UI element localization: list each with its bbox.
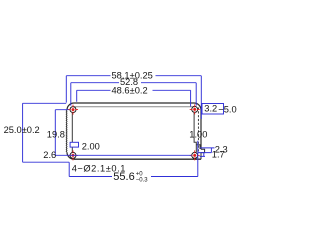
right bottom step [201, 149, 205, 159]
svg-text:55.6: 55.6 [113, 171, 134, 183]
red hole centers [72, 108, 197, 157]
dim 52.8 line [71, 83, 196, 106]
red center cross ticks [68, 104, 200, 160]
hidden dashed line right [197, 108, 199, 152]
enclosure outline: left wall zigzag [65, 110, 68, 152]
left inner wall [71, 113, 73, 152]
hole circle top-right [192, 106, 198, 112]
inner lid seam line top [73, 106, 195, 108]
enclosure outline: top-right corner arc [194, 103, 201, 110]
svg-text:2.6: 2.6 [43, 150, 56, 160]
hole circle bottom-left [70, 152, 76, 158]
enclosure outline: right outer wall [200, 110, 202, 149]
hole circle top-left [70, 107, 76, 113]
dim 1.7 lines [200, 153, 205, 157]
dim 2.3 lines [198, 148, 215, 153]
svg-text:1.00: 1.00 [189, 130, 207, 140]
hole circle bottom-right [192, 152, 198, 158]
enclosure outline: bottom-left corner arc [67, 152, 74, 159]
dim 48.6 line [77, 90, 191, 106]
right wall tab [196, 145, 200, 149]
enclosure outline: top edge [74, 102, 194, 104]
svg-text:25.0±0.2: 25.0±0.2 [4, 125, 40, 135]
enclosure outline: top-left corner arc [67, 103, 74, 110]
dim 2.00 notch box [70, 142, 78, 147]
dim 55.6 line [69, 141, 198, 177]
dim 19.8 line [55, 110, 191, 156]
svg-text:48.6±0.2: 48.6±0.2 [112, 86, 148, 96]
svg-text:−5.0: −5.0 [218, 104, 236, 114]
svg-text:−0.3: −0.3 [136, 177, 149, 183]
svg-text:3.2: 3.2 [204, 104, 217, 114]
svg-text:1.7: 1.7 [212, 150, 225, 160]
dim 25.0 line [23, 103, 70, 162]
enclosure outline: bottom edge [74, 158, 201, 160]
dim 58.1 line [66, 76, 201, 119]
svg-text:2.00: 2.00 [82, 141, 100, 151]
blue dimension lines [23, 76, 224, 177]
right inner wall with 1.00 step [194, 113, 196, 152]
dim 3.2 callout box [202, 104, 224, 115]
svg-text:19.8: 19.8 [47, 129, 65, 139]
